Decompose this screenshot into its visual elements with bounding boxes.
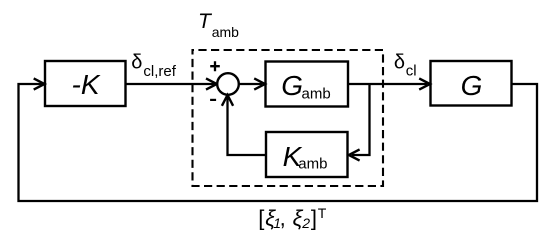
svg-text:[: [ <box>258 205 264 230</box>
svg-text:δ: δ <box>394 52 405 74</box>
svg-text:]: ] <box>311 205 317 230</box>
wire outer feedback loop <box>19 84 538 201</box>
wire summing junction to G_amb <box>239 83 262 85</box>
svg-text:cl,ref: cl,ref <box>143 63 176 80</box>
svg-text:cl: cl <box>406 63 417 80</box>
block -K <box>45 61 126 106</box>
arrowhead into -K <box>34 78 45 89</box>
svg-text:-K: -K <box>72 69 101 100</box>
arrowhead into G_amb <box>254 78 265 89</box>
minus sign <box>210 99 216 101</box>
svg-text:amb: amb <box>212 24 239 40</box>
svg-text:,: , <box>280 205 286 230</box>
arrowhead into summing junction <box>206 78 217 89</box>
dashed box T_amb <box>193 50 384 186</box>
arrowhead into G <box>419 78 430 89</box>
svg-text:amb: amb <box>302 85 331 102</box>
arrowhead into K_amb <box>349 149 360 160</box>
block G_amb <box>266 62 349 107</box>
svg-text:δ: δ <box>131 52 142 74</box>
wire -K to summing junction <box>126 83 215 85</box>
wire K_amb to summing junction <box>228 97 267 155</box>
summing junction <box>217 73 239 95</box>
svg-text:G: G <box>281 70 303 101</box>
wire G_amb to G <box>348 83 427 85</box>
arrowhead up into summing junction <box>222 95 233 106</box>
svg-text:2: 2 <box>301 215 310 231</box>
svg-text:T: T <box>318 205 327 221</box>
block G <box>431 61 512 106</box>
block K_amb <box>266 132 348 177</box>
plus sign <box>210 61 220 71</box>
wire branch down to K_amb <box>352 84 370 155</box>
svg-text:amb: amb <box>298 156 327 173</box>
svg-text:G: G <box>461 70 483 101</box>
